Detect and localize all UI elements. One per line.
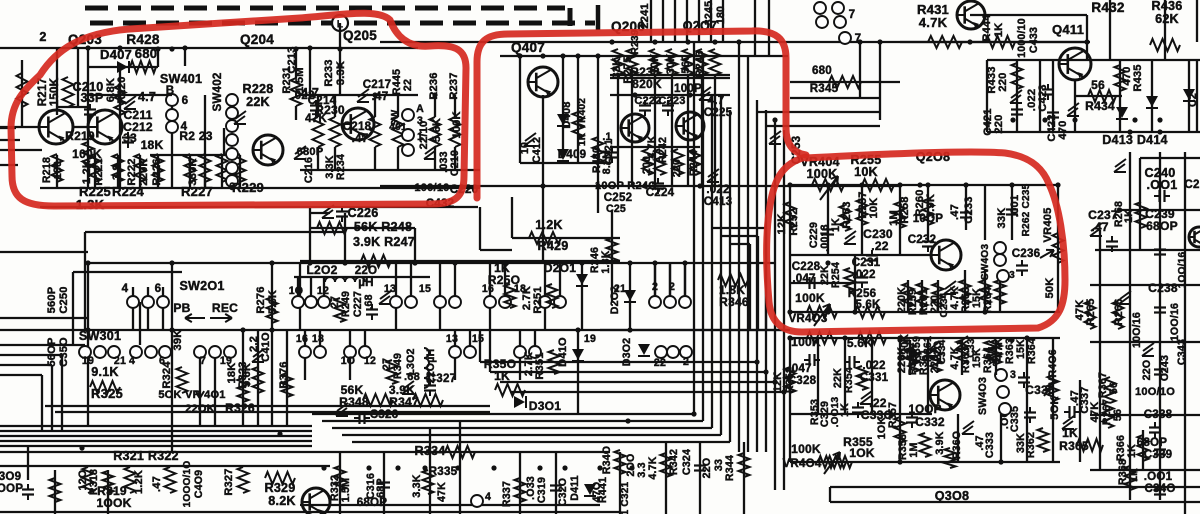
wire tr v1197b [1196,0,1198,42]
diode D409 [557,149,569,161]
wire bus v7 [756,100,758,452]
wire v x88 [87,48,89,188]
capacitor C329 [852,402,864,418]
wire v D408 [562,56,564,150]
junction dx39 [1024,335,1029,340]
svg-text:R262 C235: R262 C235 [1021,183,1032,236]
svg-text:47K: 47K [305,112,327,125]
svg-text:R444: R444 [981,14,993,42]
junction dx38 [897,335,902,340]
svg-text:18K: 18K [141,138,164,152]
wire stem R233 bot [334,147,336,170]
terminal row4 a [655,346,667,358]
capacitor C232 [922,236,934,252]
svg-text:6: 6 [182,94,189,107]
wire bm v 340 [339,452,341,514]
resistor R255 [862,179,894,191]
svg-text:12: 12 [317,285,329,297]
terminal sw403 c2 [994,254,1006,266]
capacitor C231 [856,272,868,288]
resistor R221b [113,154,124,182]
wire row2b stem b [310,277,312,296]
wire bl v215 [214,352,216,426]
wire r2 stemd 545 [544,308,546,330]
diode D407 [117,61,129,73]
arrow sw201 right [210,314,232,322]
wire q308 top [830,486,1200,488]
svg-text:10O/1O: 10O/1O [1135,386,1175,398]
junction d13 [925,182,930,187]
wire node L stem [339,23,341,95]
resistor R238v [627,49,638,75]
wire stem C217v bot [374,147,376,170]
wire l2 v618 [617,75,619,186]
svg-text:2241: 2241 [639,3,651,28]
wire bus h2 [0,435,312,437]
polarity mark z c326 [336,403,348,416]
svg-text:1OK: 1OK [876,417,888,440]
diode D411 [584,484,596,496]
svg-text:C332: C332 [915,415,945,429]
junction dx27 [627,260,632,265]
resistor Rx330 [235,154,246,182]
junction djb1 [79,445,84,450]
junction d5 [540,53,545,58]
wire v 1152s [1151,60,1153,132]
wire v x310 [309,48,311,95]
svg-text:10K: 10K [868,198,880,219]
wire l3 v 985b [984,270,986,312]
svg-text:Q3O8: Q3O8 [935,489,969,503]
svg-text:100K: 100K [795,291,825,305]
junction d18 [1009,337,1014,342]
wire l2 v688 [687,75,689,186]
svg-text:SW4O3: SW4O3 [977,377,989,415]
svg-text:2.2: 2.2 [248,336,260,352]
junction d2 [182,45,187,50]
junction dx18 [595,183,600,188]
svg-text:R335: R335 [429,465,458,478]
resistor R231 [291,78,302,106]
svg-text:R229: R229 [232,180,264,195]
capacitor C237 [1106,236,1118,252]
svg-text:R242: R242 [657,137,669,163]
wire nc v1 [765,228,767,330]
red marker loop 1 [11,13,466,206]
junction dx40 [897,459,902,464]
wire bm v 666 [665,442,667,514]
terminal row2 f [499,296,511,308]
junction d20 [169,260,174,265]
wire v VR402 [577,56,579,163]
svg-text:R441: R441 [597,477,609,503]
wire l3 v 828 [827,185,829,255]
terminal sw403 c3 [997,270,1009,282]
junction dx42 [321,465,326,470]
resistor R445 [393,117,404,147]
wire m v 1080 [1079,380,1081,462]
svg-text:3245: 3245 [703,1,715,25]
svg-text:6: 6 [155,282,162,295]
resistor R431 [928,36,962,48]
junction d17 [897,337,902,342]
wire r2 stemd 490 [489,308,491,330]
wire r3 stem 470 [469,330,471,346]
junction d31 [1157,117,1162,122]
wire ts v7 [722,0,724,42]
wire rc v 1160 [1159,152,1161,500]
wire bl h318 [0,317,88,319]
terminal SW402-3 [226,134,238,146]
wire bm h 505 [300,504,600,506]
svg-text:1K: 1K [1128,468,1140,482]
wire stairB 4 [510,391,784,393]
resistor R359m [905,340,916,364]
transistor Q208 [931,240,961,270]
wire bl v140 [139,302,141,345]
terminal row2 j [664,296,676,308]
terminal conn t3 [816,16,828,28]
junction d22 [85,260,90,265]
svg-text:9.1K: 9.1K [91,365,118,379]
polarity mark z2 [234,111,246,124]
svg-text:C2: C2 [1184,178,1199,191]
svg-text:R258: R258 [899,196,911,223]
wire m left v [789,338,791,462]
polarity mark z c327 [402,381,414,394]
svg-text:180: 180 [52,161,64,179]
wire bl box left [84,232,86,330]
svg-text:R432: R432 [1091,0,1125,15]
transistor Q431 [957,1,985,29]
wire rc h 285 [1090,284,1200,286]
junction d4 [337,63,342,68]
svg-text:R435: R435 [1132,64,1144,91]
svg-text:C232: C232 [908,233,937,246]
wire nc v2 [757,236,759,330]
wire l3 bot rail [790,311,1060,313]
dashed boundary inner [90,5,598,30]
svg-text:56K R248: 56K R248 [354,220,412,234]
resistor R233x [200,154,211,182]
junction dx29 [682,260,687,265]
wire lm y95 [88,94,172,96]
svg-text:.1 C321: .1 C321 [620,481,631,514]
wire row2b stem c [323,277,325,296]
terminal row3 a [299,346,311,358]
svg-text:7: 7 [200,355,206,367]
resistor R252 [785,202,796,228]
svg-text:68OP: 68OP [357,496,388,509]
resistor R364m [991,340,1002,364]
svg-text:D2O2: D2O2 [609,286,621,314]
svg-text:R352: R352 [784,367,796,393]
terminal SW402-4 [226,148,238,160]
svg-text:C34O: C34O [1144,482,1175,495]
junction dx25 [502,260,507,265]
wire stairB v2 [489,330,491,372]
resistor R347 [413,394,443,406]
wire bus h1 [0,430,312,432]
resistor VR403c [807,332,837,344]
svg-text:VR405: VR405 [1042,208,1054,243]
resistor R346 [718,274,748,286]
svg-text:.OO1: .OO1 [1147,178,1178,192]
wire rc h 470 [1090,469,1200,471]
svg-text:VR4O4: VR4O4 [782,457,821,470]
wire bm v 430 [429,428,431,514]
wire stem C217v top [374,95,376,117]
polarity mark z c237 [1090,223,1102,236]
svg-text:C334: C334 [937,339,948,364]
junction dx56 [1009,182,1014,187]
capacitor C422 [1047,107,1059,123]
resistor R218 [52,154,63,182]
wire stem R236 bot [434,147,436,170]
terminal conn t1 [814,2,826,14]
wire nc h2 [721,235,758,237]
terminal SW401A-3 [402,109,414,121]
junction d1 [117,45,122,50]
svg-text:1OK: 1OK [849,446,875,460]
resistor R253 [840,205,851,231]
svg-text:R253: R253 [841,201,853,228]
wire r2 stem 440 [439,263,441,296]
wire r2 stem 455 [454,263,456,296]
terminal row3 b [314,346,326,358]
svg-text:.1: .1 [602,131,611,143]
svg-text:.68: .68 [404,371,420,383]
svg-text:22: 22 [402,79,414,91]
junction d6 [595,53,600,58]
resistor R429 [529,232,561,244]
terminal row2 k [679,296,691,308]
wire l3 v 1058 [1057,185,1059,312]
wire tr rail [900,41,1030,43]
transistor Q edge [1189,227,1200,248]
resistor R344 [739,453,750,477]
wire h252 left [0,251,88,253]
svg-text:1OOO/1O: 1OOO/1O [182,461,193,508]
svg-text:150K: 150K [48,77,61,106]
diode D301 [514,396,526,408]
svg-text:SW2O1: SW2O1 [179,279,224,293]
wire rc h 342 [1090,341,1200,343]
svg-text:R222: R222 [126,158,138,185]
svg-text:C343: C343 [1176,339,1188,365]
svg-text:Q407: Q407 [511,40,545,55]
svg-text:C25: C25 [606,203,626,215]
wire rc h 250 [1095,249,1200,251]
wire stair 2 [322,420,703,422]
wire v670s [669,263,671,297]
wire l3 v 900 [899,185,901,255]
svg-text:180: 180 [715,6,727,24]
wire l3 top rail [790,184,1060,186]
svg-text:1.2K: 1.2K [81,160,93,184]
svg-text:R265: R265 [1085,298,1097,325]
svg-text:5.6K: 5.6K [855,298,881,311]
resistor R3xx [50,478,61,502]
resistor VR405 [1053,233,1064,263]
polarity mark z rc3 [1114,159,1126,172]
svg-text:R252: R252 [788,208,800,235]
svg-text:C339: C339 [1144,448,1173,461]
terminal row4 c [680,346,692,358]
wire m v 1143 [1142,430,1144,470]
junction dx36 [787,335,792,340]
wire l3 v 855 [854,255,856,312]
terminal sw301 e [145,346,157,358]
svg-text:1O: 1O [289,285,304,297]
wire bus v1 [702,56,704,421]
wire l3 cap rail [790,282,855,284]
junction dx30 [85,327,90,332]
wire bl v55 [54,470,56,514]
resistor R257 [857,199,868,225]
junction dx7 [517,53,522,58]
svg-text:4.7K: 4.7K [647,456,659,479]
wire bus h4 [0,445,312,447]
terminal SW402-2 [226,120,238,132]
terminal row2 e [484,296,496,308]
wire v R436 [1164,28,1166,60]
svg-text:C433: C433 [1028,27,1040,53]
wire bm v 744 [743,442,745,514]
wire v 1017s [1016,60,1018,132]
svg-text:1K VR402: 1K VR402 [577,98,588,146]
svg-text:5.6K: 5.6K [847,336,873,350]
wire bl v200 [199,352,201,426]
svg-text:R346: R346 [719,295,749,309]
terminal sw301 d [130,346,142,358]
resistor R359m [909,348,920,372]
capacitor C319 [550,480,562,496]
wire m v910 [909,340,911,375]
terminal row3 g [514,346,526,358]
svg-text:220: 220 [993,114,1005,133]
junction d25 [1010,117,1015,122]
wire bl v287 [286,330,288,426]
svg-text:.47: .47 [1091,220,1108,234]
wire tm v755 [754,0,756,56]
junction dx55 [963,182,968,187]
svg-text:10K: 10K [649,54,661,75]
transistor Q205b [342,108,374,140]
svg-text:REC: REC [212,301,238,315]
resistor R259 [903,283,914,307]
wire ts v4 [686,0,688,42]
capacitor C240 [1154,190,1170,202]
resistor R334 [445,446,475,458]
terminal row2 g [539,296,551,308]
resistor R242 [655,149,666,175]
wire bus v2 [711,95,713,428]
wire r3 stem 535 [534,330,536,346]
wire r247 w [300,260,620,262]
terminal SW402-1 [226,107,238,119]
wire stem R218 [56,155,58,188]
svg-text:820K: 820K [632,77,662,91]
resistor R254 [845,268,856,292]
svg-text:.047: .047 [792,272,815,285]
svg-text:220: 220 [997,72,1009,91]
resistor R332 [335,466,346,490]
polarity mark zq412 [1067,103,1079,116]
svg-text:R276: R276 [255,286,267,313]
svg-text:56OP: 56OP [46,337,58,367]
resistor R217 [17,73,28,107]
wire r3 stem 455 [454,330,456,346]
polarity mark z m330 [860,391,872,404]
junction dx6 [432,92,437,97]
wire d407 wire [88,66,158,68]
wire l3 mid rail [790,254,932,256]
junction dx3 [293,46,298,51]
wire stair 3 [332,427,712,429]
junction dx50 [597,465,602,470]
svg-text:C225: C225 [704,106,733,119]
svg-text:3.9K R247: 3.9K R247 [353,235,415,249]
wire R231 top [295,49,297,78]
wire rail y60 [987,59,1200,61]
wire bl h345 [0,344,85,346]
svg-text:8.2K: 8.2K [268,494,295,508]
junction dx20 [697,183,702,188]
junction d24 [772,117,777,122]
resistor R318 [83,467,94,493]
wire r3 stemd 455 [454,358,456,380]
svg-text:200: 200 [641,156,653,174]
capacitor C337 [1064,406,1080,418]
polarity mark zq411 [1010,90,1022,103]
resistor R354 [857,366,868,390]
wire wire y78 [610,77,730,79]
junction dx37 [842,335,847,340]
diode D408 [557,114,569,126]
wire bl v243 [242,330,244,426]
wire v630s [629,263,631,330]
wire stem R233 top [334,95,336,117]
capacitor C210 [84,104,96,120]
resistor 30K [667,49,678,75]
junction dx51 [629,465,634,470]
junction d3 [307,45,312,50]
svg-text:.47: .47 [151,476,163,492]
transistor Q203b [88,110,122,144]
wire bm v 620 [619,452,621,514]
junction d12 [897,182,902,187]
junction d30 [1084,39,1089,44]
resistor R355 [824,456,852,468]
svg-text:R224: R224 [112,184,145,199]
resistor R281 [710,49,721,75]
resistor R320 [165,467,176,493]
wire bl v42 [41,375,43,430]
svg-text:3.3K: 3.3K [411,474,423,497]
wire top rail left [0,47,418,49]
junction dx57 [825,309,830,314]
polarity mark z3 [357,89,369,102]
terminal row2 a [390,296,402,308]
capacitor C223 [662,100,674,116]
wire bm v 700 [699,442,701,514]
svg-text:C234: C234 [939,292,950,317]
arrow VR404m arrow [824,452,840,474]
wire stairB 1 [480,361,757,363]
svg-text:VR4O3: VR4O3 [788,312,827,325]
capacitor C221 [606,147,618,163]
